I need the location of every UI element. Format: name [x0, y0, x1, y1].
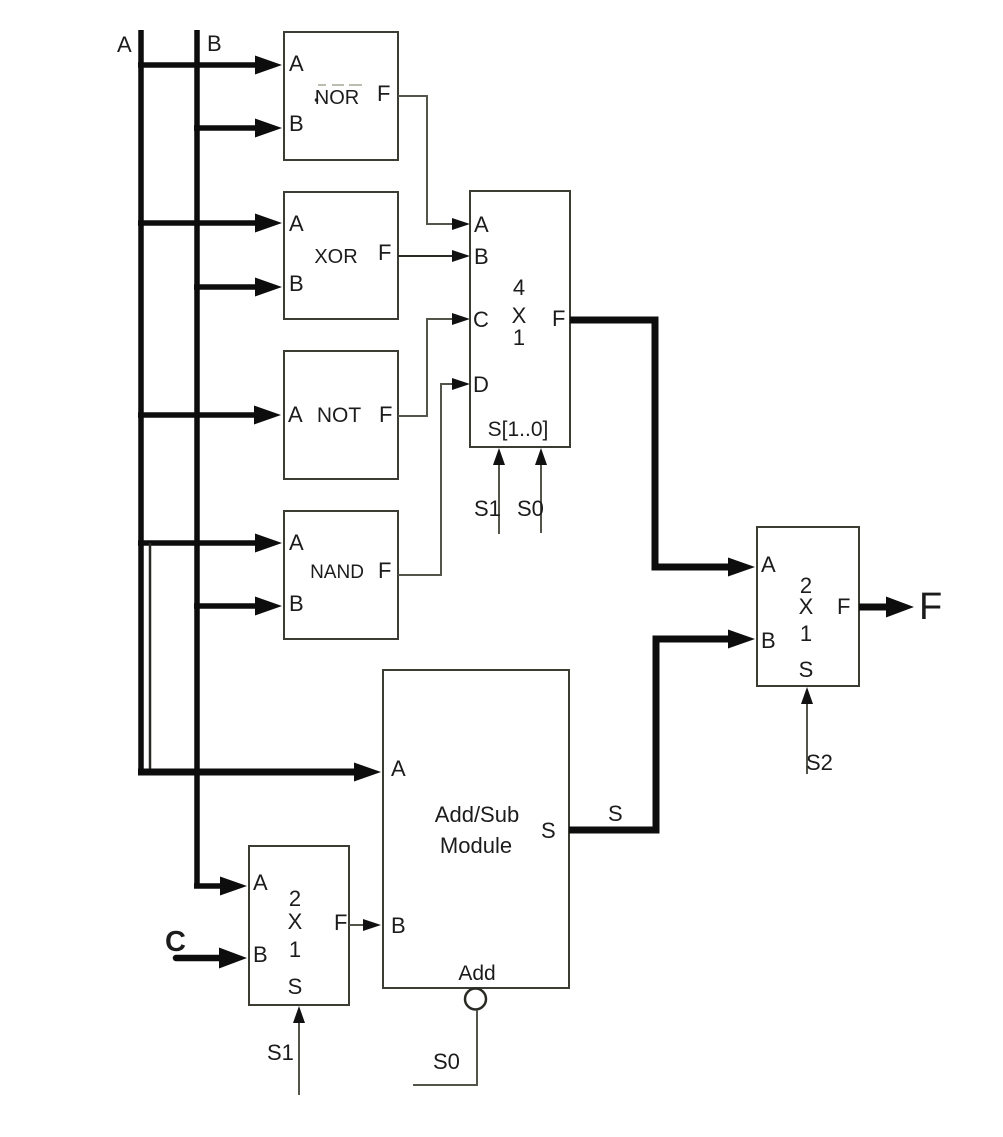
wire B bus to MUX2L pin A — [194, 877, 247, 896]
wire A bus to NOR pin A — [138, 56, 282, 75]
gate U3 NOT box — [284, 351, 398, 479]
MUX2L name 2 — [289, 886, 301, 911]
MUX2R pin label B — [761, 628, 776, 653]
MUX2L name 1 — [289, 937, 301, 962]
svg-text:Add: Add — [458, 962, 495, 985]
net S0 label — [517, 496, 544, 521]
svg-text:S: S — [799, 657, 814, 682]
svg-text:A: A — [761, 552, 776, 577]
AddSub pin label B — [391, 913, 406, 938]
svg-text:F: F — [378, 240, 391, 265]
AddSub name line2 — [440, 833, 512, 858]
net S label on wire — [608, 801, 623, 826]
XOR gate name label — [314, 246, 357, 268]
svg-text:A: A — [289, 51, 304, 76]
svg-text:1: 1 — [800, 621, 812, 646]
NOT gate name label — [317, 404, 362, 427]
wire AddSub.S to MUX2R pin B — [569, 639, 730, 830]
svg-text:B: B — [289, 591, 304, 616]
svg-text:A: A — [474, 212, 489, 237]
svg-text:F: F — [379, 402, 392, 427]
svg-text:B: B — [253, 942, 268, 967]
MUX2R pin label A — [761, 552, 776, 577]
svg-text:B: B — [289, 271, 304, 296]
wire S2 into MUX2R select — [801, 687, 813, 774]
wire A bus to NOT pin A — [138, 406, 281, 425]
svg-text:S: S — [288, 974, 303, 999]
MUX2L pin label A — [253, 870, 268, 895]
arrow into MUX4 pin A — [450, 218, 470, 230]
net S0 label lower — [433, 1049, 460, 1074]
NAND pin label A — [289, 530, 304, 555]
svg-text:S: S — [608, 801, 623, 826]
gate U4 NAND box — [284, 511, 398, 639]
svg-text:B: B — [474, 244, 489, 269]
NOT pin label A — [288, 402, 303, 427]
MUX2R name 2 — [800, 573, 812, 598]
AddSub pin label S — [541, 818, 556, 843]
svg-text:A: A — [288, 402, 303, 427]
svg-text:D: D — [473, 372, 489, 397]
svg-text:A: A — [117, 32, 132, 57]
MUX4 pin label D — [473, 372, 489, 397]
svg-text:A: A — [289, 530, 304, 555]
wire NOT.F to MUX4 pin C — [398, 319, 452, 416]
svg-text:2: 2 — [289, 886, 301, 911]
svg-text:X: X — [288, 909, 303, 934]
svg-text:S: S — [541, 818, 556, 843]
arrow into MUX4 pin C — [450, 313, 470, 325]
wire A bus to XOR pin A — [138, 214, 282, 233]
wire S1 into MUX2L select — [293, 1006, 305, 1095]
NAND pin label B — [289, 591, 304, 616]
NOR pin label F — [377, 81, 390, 106]
svg-text:F: F — [552, 306, 565, 331]
svg-text:C: C — [165, 926, 186, 958]
svg-text:F: F — [334, 910, 347, 935]
AddSub pin label A — [391, 756, 406, 781]
wire MUX4.F to MUX2R pin A — [570, 320, 730, 567]
net F output label — [919, 586, 942, 628]
MUX4 pin label C — [473, 307, 489, 332]
MUX4 select label S[1..0] — [488, 418, 549, 441]
svg-text:B: B — [391, 913, 406, 938]
net S2 label — [806, 750, 833, 775]
net B bus wire vertical — [194, 30, 200, 888]
svg-text:1: 1 — [513, 325, 525, 350]
node B bus label — [207, 31, 222, 56]
MUX2R select label S — [799, 657, 814, 682]
mux U6 2x1 right box — [757, 527, 859, 686]
mux U5 4x1 box — [470, 191, 570, 447]
wire S0 into MUX4 select — [535, 448, 547, 533]
NOT pin label F — [379, 402, 392, 427]
svg-text:4: 4 — [513, 275, 525, 300]
arrow into MUX4 pin D — [450, 378, 470, 390]
svg-text:NAND: NAND — [310, 562, 364, 583]
svg-text:S2: S2 — [806, 750, 833, 775]
svg-text:C: C — [473, 307, 489, 332]
MUX2R pin label F — [837, 594, 850, 619]
MUX2L pin label F — [334, 910, 347, 935]
wire B bus to NOR pin B — [194, 119, 282, 138]
node C input label — [165, 926, 186, 958]
MUX4 pin label A — [474, 212, 489, 237]
svg-text:F: F — [378, 558, 391, 583]
MUX2L name X — [288, 909, 303, 934]
NOR pin label B — [289, 111, 304, 136]
wire NAND.F to MUX4 pin D — [398, 384, 452, 575]
AddSub name line1 — [435, 802, 519, 827]
net A bus wire vertical — [138, 30, 144, 774]
wire XOR.F to MUX4 pin B — [398, 255, 452, 257]
svg-text:B: B — [207, 31, 222, 56]
svg-text:Add/Sub: Add/Sub — [435, 802, 519, 827]
svg-text:S0: S0 — [517, 496, 544, 521]
wire riser node A (NAND branch to Add/Sub branch) — [149, 543, 152, 770]
MUX2L pin label B — [253, 942, 268, 967]
wire NOR.F to MUX4 pin A — [398, 96, 452, 224]
MUX2L select label S — [288, 974, 303, 999]
mux U8 2x1 left box — [249, 846, 349, 1005]
wire C to MUX2L pin B — [176, 948, 247, 969]
wire MUX2L.F to AddSub pin B — [349, 919, 381, 931]
svg-text:A: A — [289, 211, 304, 236]
wire B bus to XOR pin B — [194, 278, 282, 297]
svg-text:B: B — [761, 628, 776, 653]
svg-text:NOT: NOT — [317, 404, 362, 427]
MUX4 name X — [512, 303, 527, 328]
svg-text:X: X — [799, 594, 814, 619]
wire A bus to AddSub pin A — [138, 763, 381, 782]
net S1 label — [474, 496, 501, 521]
net S1 label lower — [267, 1040, 294, 1065]
NOR erased-text artifact — [315, 85, 362, 102]
svg-text:B: B — [289, 111, 304, 136]
arrowhead into MUX2R pin A — [700, 558, 755, 577]
arrow into MUX4 pin B — [450, 250, 470, 262]
svg-text:S1: S1 — [267, 1040, 294, 1065]
MUX2R name X — [799, 594, 814, 619]
gate U1 NOR box — [284, 32, 398, 160]
AddSub pin label Add — [458, 962, 495, 985]
svg-text:A: A — [253, 870, 268, 895]
AddSub active-low bubble on Add pin — [465, 989, 486, 1010]
svg-text:S[1..0]: S[1..0] — [488, 418, 549, 441]
module U7 Add/Sub box — [383, 670, 569, 988]
wire A bus to NAND pin A — [138, 534, 282, 553]
MUX4 pin label F — [552, 306, 565, 331]
node A bus label — [117, 32, 132, 57]
MUX4 pin label B — [474, 244, 489, 269]
svg-text:A: A — [391, 756, 406, 781]
svg-text:F: F — [919, 586, 942, 628]
XOR pin label B — [289, 271, 304, 296]
svg-text:NOR: NOR — [315, 87, 359, 109]
MUX4 name 4 — [513, 275, 525, 300]
MUX2R name 1 — [800, 621, 812, 646]
gate U2 XOR box — [284, 192, 398, 319]
svg-text:1: 1 — [289, 937, 301, 962]
svg-text:Module: Module — [440, 833, 512, 858]
svg-text:F: F — [837, 594, 850, 619]
arrowhead into MUX2R pin B — [700, 630, 755, 649]
MUX4 name 1 — [513, 325, 525, 350]
XOR pin label A — [289, 211, 304, 236]
svg-text:S0: S0 — [433, 1049, 460, 1074]
wire S0 to Add bubble — [413, 1010, 477, 1085]
NOR gate name label — [315, 87, 359, 109]
svg-text:XOR: XOR — [314, 246, 357, 268]
NOR pin label A — [289, 51, 304, 76]
svg-text:S1: S1 — [474, 496, 501, 521]
wire B bus to NAND pin B — [194, 597, 282, 616]
wire MUX2R.F final output F — [859, 597, 914, 618]
svg-text:F: F — [377, 81, 390, 106]
NAND gate name label — [310, 562, 364, 583]
NAND pin label F — [378, 558, 391, 583]
wire S1 into MUX4 select — [493, 448, 505, 534]
XOR pin label F — [378, 240, 391, 265]
